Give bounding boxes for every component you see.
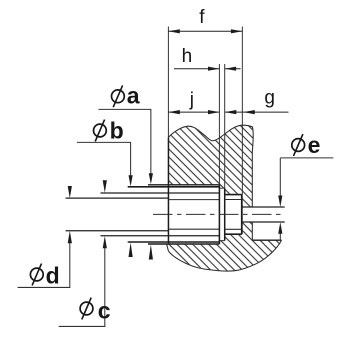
housing port face (left edge of upper block + face line across stud) <box>167 137 169 244</box>
dimension h line left <box>174 68 219 70</box>
svg-text:a: a <box>127 83 140 109</box>
dia b leader vertical <box>130 142 132 175</box>
dimension j right arrow <box>208 110 219 114</box>
dia e bottom arrow <box>278 222 282 234</box>
hole e top edge <box>242 206 285 208</box>
dia c top arrow <box>103 180 107 193</box>
thread runout step, bottom <box>219 240 224 242</box>
pipe d bottom <box>66 230 169 232</box>
nose inner line top <box>225 199 241 201</box>
extension line V2 up <box>224 64 226 188</box>
dia b symbol circle <box>94 124 107 137</box>
extension line V1 up <box>218 64 220 185</box>
stud thread crest bottom <box>128 241 220 243</box>
dia e leader bar <box>280 157 333 159</box>
port end wall (nose end face) <box>241 195 243 235</box>
dia a symbol circle <box>112 90 125 103</box>
dia d leader bar <box>18 286 71 288</box>
dia a leader vertical <box>150 109 152 173</box>
dia d leader vertical <box>69 243 71 287</box>
svg-text:h: h <box>182 46 193 67</box>
dia b bottom arrow <box>129 243 133 258</box>
inner bore top <box>169 199 220 201</box>
stud thread end face V1 <box>218 185 220 244</box>
dia e top arrow <box>278 196 282 208</box>
dia c leader bar <box>59 325 106 327</box>
inner bore bottom <box>169 228 220 230</box>
pilot-bore wall / nose top edge <box>225 194 242 196</box>
hole e bottom edge <box>242 221 285 223</box>
svg-text:c: c <box>98 298 111 324</box>
dia a bottom arrow <box>149 245 153 260</box>
svg-text:j: j <box>189 90 194 111</box>
dia d top arrow <box>68 186 72 198</box>
svg-text:d: d <box>46 262 60 288</box>
dia e symbol slash <box>294 134 303 156</box>
dia c symbol circle <box>80 302 93 315</box>
dia e leader vertical <box>279 158 281 196</box>
svg-text:e: e <box>308 132 321 158</box>
stud nose left edge V2 <box>224 188 226 240</box>
thread runout step, top <box>219 187 224 189</box>
stud thread root / shank c bottom <box>101 235 220 237</box>
dimension h arrow left-pointing <box>225 67 236 71</box>
dia e symbol circle <box>292 139 305 152</box>
pipe d top <box>66 197 169 199</box>
extension line f right <box>241 27 243 195</box>
dia b top arrow <box>129 175 133 186</box>
housing break line: wavy top + right side <box>168 125 253 207</box>
dimension g arrow at nose <box>225 110 236 114</box>
centerline <box>153 213 285 215</box>
dimension h line right <box>225 68 241 70</box>
housing break line: right side below hole <box>251 222 253 240</box>
dia b symbol slash <box>95 120 104 142</box>
dimension f line <box>168 30 242 32</box>
housing lower block hatch <box>167 222 282 271</box>
dimension g arrow at end wall <box>243 110 254 114</box>
housing tapped-hole edge (female thread line, top) <box>148 184 219 186</box>
dia d bottom arrow <box>68 231 72 243</box>
housing upper block hatch <box>168 125 253 207</box>
dia c leader vertical <box>104 248 106 326</box>
dimension f left arrow <box>168 29 179 33</box>
dimension j line <box>168 111 219 113</box>
extension line f left <box>167 27 169 138</box>
dia b leader bar <box>77 141 131 143</box>
pilot-bore wall / nose bottom edge <box>225 233 242 235</box>
svg-text:g: g <box>264 87 275 108</box>
dimension j left arrow <box>168 110 179 114</box>
dimension h arrow right-pointing <box>208 67 219 71</box>
dia a symbol slash <box>113 85 122 107</box>
dia a top arrow <box>149 173 153 184</box>
dimension g line <box>225 111 289 113</box>
stud thread crest top <box>128 186 220 188</box>
dimension f right arrow <box>231 29 242 33</box>
housing tapped-hole edge (female thread line, bottom) <box>148 243 219 245</box>
dia d symbol slash <box>32 264 41 286</box>
dia c bottom arrow <box>103 236 107 248</box>
housing top face right of break <box>252 239 281 241</box>
svg-text:f: f <box>199 7 205 28</box>
dia e bottom arrow tail <box>279 234 281 241</box>
housing break line: wavy bottom <box>167 240 282 271</box>
dia a leader bar <box>99 108 152 110</box>
svg-text:b: b <box>110 118 124 144</box>
dia c symbol slash <box>82 298 91 320</box>
nose inner line bottom <box>225 228 241 230</box>
stud thread root / shank c top <box>101 192 220 194</box>
dia d symbol circle <box>30 268 43 281</box>
